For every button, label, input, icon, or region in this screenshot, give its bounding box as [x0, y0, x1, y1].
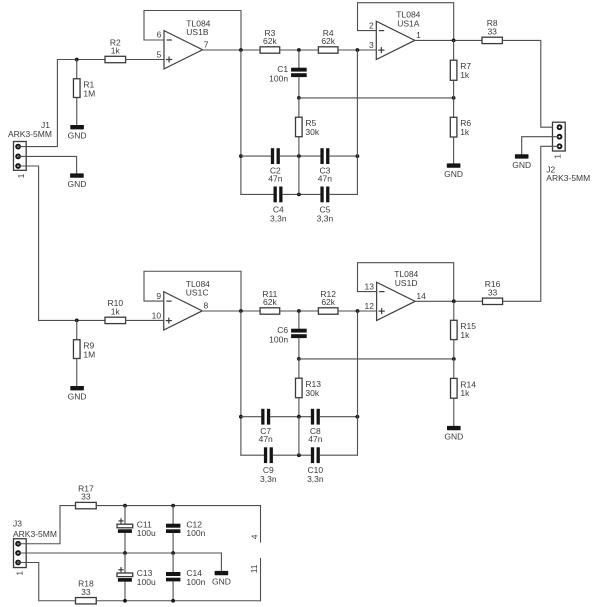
svg-text:ARK3-5MM: ARK3-5MM	[13, 529, 57, 539]
capacitor C7	[259, 409, 273, 444]
resistor R16	[483, 279, 503, 304]
junction centre C7/C8 row	[297, 415, 301, 419]
ground (R1)	[68, 125, 87, 141]
svg-text:3,3n: 3,3n	[307, 474, 324, 484]
wire J2 pin2 to ground	[522, 137, 558, 155]
svg-text:ARK3-5MM: ARK3-5MM	[546, 173, 590, 183]
connector J3	[14, 539, 27, 568]
wire node F to R13	[298, 359, 300, 378]
resistor R3	[260, 28, 280, 53]
junction US1B output node	[239, 48, 243, 52]
resistor R8	[482, 18, 502, 43]
capacitor C4	[270, 187, 287, 224]
resistor R2	[105, 37, 126, 62]
capacitor C10	[307, 447, 324, 484]
wire J1 pin3 to channel-2 input	[18, 166, 105, 320]
wire R3 to node A	[280, 49, 319, 51]
svg-text:62k: 62k	[321, 36, 335, 46]
junction divider node ch2	[452, 357, 456, 361]
junction node A	[297, 48, 301, 52]
wire J1 pin2 to ground	[18, 156, 77, 173]
capacitor C12	[166, 524, 180, 533]
svg-text:62k: 62k	[263, 297, 277, 307]
resistor R11	[260, 289, 280, 314]
svg-text:J3: J3	[13, 519, 22, 529]
wire C7 to C8	[271, 416, 311, 418]
svg-text:C6: C6	[277, 325, 288, 335]
svg-text:1k: 1k	[460, 330, 470, 340]
svg-text:13: 13	[365, 281, 375, 291]
op-amp US1A	[376, 21, 415, 59]
svg-text:GND: GND	[444, 432, 463, 442]
svg-text:1: 1	[553, 154, 563, 159]
wire GND rail down to C13	[124, 553, 126, 573]
wire node C to R5	[298, 98, 300, 117]
svg-text:1k: 1k	[460, 70, 470, 80]
capacitor C11	[117, 518, 133, 533]
wire C11 to GND rail	[124, 533, 126, 553]
wire GND rail to ground symbol	[220, 553, 222, 571]
svg-text:US1D: US1D	[395, 278, 418, 288]
svg-text:2: 2	[369, 20, 374, 30]
svg-text:GND: GND	[68, 131, 87, 141]
capacitor C8	[308, 409, 322, 444]
resistor R13	[296, 378, 322, 398]
svg-text:1M: 1M	[83, 88, 95, 98]
wire J2 pin3 to R16	[503, 146, 558, 301]
capacitor C6	[269, 325, 307, 345]
svg-text:3,3n: 3,3n	[270, 213, 287, 223]
wire node F to R15/R14 divider	[299, 358, 454, 360]
junction GND rail at C13	[123, 551, 127, 555]
junction right C8 row	[356, 415, 360, 419]
wire R13 to C7/C8 row	[298, 398, 300, 417]
svg-text:33: 33	[81, 587, 91, 597]
resistor R6	[450, 117, 471, 137]
junction US1A output node	[452, 39, 456, 43]
wire J3 pin1 to R17	[18, 506, 75, 544]
svg-text:100u: 100u	[137, 577, 156, 587]
svg-text:9: 9	[156, 291, 161, 301]
wire node A down to C1	[298, 50, 300, 68]
svg-text:47n: 47n	[259, 434, 273, 444]
svg-text:100u: 100u	[137, 528, 156, 538]
wire rail node E down	[357, 311, 359, 455]
junction input node ch2	[75, 319, 79, 323]
wire rail US1B output down	[240, 50, 242, 194]
svg-text:3,3n: 3,3n	[260, 474, 277, 484]
capacitor C1	[269, 64, 307, 84]
junction left C2 row	[239, 154, 243, 158]
svg-text:47n: 47n	[318, 173, 332, 183]
wire R1 to ground	[76, 98, 78, 126]
svg-text:US1B: US1B	[186, 27, 209, 37]
wire divider node to R6	[453, 98, 455, 117]
svg-text:C1: C1	[277, 64, 288, 74]
svg-text:47n: 47n	[308, 434, 322, 444]
wire C2 row down to C4 row	[298, 156, 300, 194]
wire US1A output	[415, 39, 482, 41]
junction centre C9/C10 row	[297, 453, 301, 457]
wire C14 to V- rail	[172, 581, 174, 600]
op-amp US1B	[164, 31, 203, 69]
wire V+ to pin 4 stub	[260, 506, 262, 542]
wire C9/C10 row left	[241, 454, 264, 456]
resistor R10	[105, 298, 126, 323]
svg-text:GND: GND	[512, 160, 531, 170]
wire C2/C3 row left	[241, 155, 271, 157]
svg-text:7: 7	[204, 39, 209, 49]
wire R14 to ground	[453, 398, 455, 426]
svg-text:ARK3-5MM: ARK3-5MM	[8, 129, 52, 139]
wire C10 row right	[320, 454, 357, 456]
svg-text:62k: 62k	[263, 36, 277, 46]
svg-text:30k: 30k	[305, 388, 319, 398]
ground (J1)	[67, 173, 86, 189]
svg-text:GND: GND	[67, 179, 86, 189]
svg-text:3: 3	[369, 40, 374, 50]
wire US1D output	[415, 300, 482, 302]
wire R15 to divider node	[453, 340, 455, 359]
wire GND rail down to C14	[172, 553, 174, 572]
wire US1B feedback loop	[144, 11, 241, 51]
junction US1D output node	[452, 299, 456, 303]
wire R7 to divider node	[453, 80, 455, 98]
svg-text:100n: 100n	[269, 74, 288, 84]
svg-text:GND: GND	[212, 577, 231, 587]
svg-text:US1A: US1A	[397, 18, 420, 28]
wire C12 to GND rail	[172, 533, 174, 553]
svg-text:14: 14	[416, 291, 426, 301]
capacitor C9	[260, 447, 277, 484]
junction centre C2/C3 row	[297, 154, 301, 158]
svg-text:11: 11	[249, 564, 259, 573]
wire GND rail	[18, 552, 221, 554]
svg-text:1M: 1M	[83, 349, 95, 359]
resistor R5	[296, 117, 320, 137]
svg-text:4: 4	[250, 534, 260, 539]
svg-text:5: 5	[157, 49, 162, 59]
ground (power)	[212, 571, 231, 587]
svg-text:1: 1	[14, 571, 24, 576]
svg-text:1: 1	[16, 173, 26, 178]
svg-text:100n: 100n	[186, 528, 205, 538]
resistor R14	[451, 378, 477, 398]
wire input node to R9	[76, 320, 78, 339]
wire US1A feedback loop	[358, 3, 454, 41]
wire R10 to US1C pin10	[126, 319, 164, 321]
svg-text:1k: 1k	[111, 46, 121, 56]
wire R4 to US1A pin3	[338, 49, 376, 51]
wire US1C output	[202, 310, 260, 312]
resistor R12	[318, 289, 338, 314]
connector J1	[14, 142, 27, 171]
ground (J2)	[512, 154, 531, 170]
svg-text:1k: 1k	[111, 306, 121, 316]
ground (R14)	[444, 426, 463, 442]
junction input node ch1	[75, 58, 79, 62]
wire node D down to C6	[298, 311, 300, 329]
wire output node to R15	[453, 301, 455, 320]
capacitor C3	[318, 148, 332, 183]
resistor R15	[451, 320, 477, 340]
junction V+ at C12	[171, 504, 175, 508]
svg-text:US1C: US1C	[186, 288, 209, 298]
wire C7/C8 row left	[241, 416, 261, 418]
svg-text:GND: GND	[68, 392, 87, 402]
svg-text:33: 33	[81, 492, 91, 502]
wire C4/C5 row left	[241, 193, 274, 195]
wire J3 pin3 to R18	[18, 563, 75, 601]
svg-text:3,3n: 3,3n	[317, 213, 334, 223]
wire J1 pin1 to input node	[18, 60, 105, 147]
svg-text:30k: 30k	[305, 127, 319, 137]
junction GND rail at C14	[171, 551, 175, 555]
svg-text:6: 6	[157, 30, 162, 40]
wire rail node B down	[356, 50, 358, 194]
wire C5 row right	[329, 193, 357, 195]
connector J2	[553, 122, 566, 151]
capacitor C14	[166, 572, 180, 581]
svg-text:GND: GND	[444, 169, 463, 179]
wire V+ down to C11	[124, 506, 126, 525]
ground (R9)	[68, 386, 87, 402]
wire US1C feedback loop	[144, 271, 241, 311]
wire US1B output	[203, 49, 261, 51]
svg-text:10: 10	[152, 310, 162, 320]
wire C7 row down to C9 row	[298, 417, 300, 456]
wire C13 to V- rail	[124, 582, 126, 601]
svg-text:47n: 47n	[268, 173, 282, 183]
svg-text:62k: 62k	[321, 297, 335, 307]
junction right C3 row	[356, 154, 360, 158]
wire R9 to ground	[76, 359, 78, 387]
junction V- at C14	[171, 599, 175, 603]
wire R11 to node D	[280, 310, 319, 312]
resistor R18	[76, 579, 97, 604]
resistor R4	[318, 28, 338, 53]
svg-text:33: 33	[487, 26, 497, 36]
svg-text:1: 1	[416, 30, 421, 40]
wire R5 to C2/C3 row	[298, 137, 300, 156]
wire node C to R7/R6 divider	[299, 97, 454, 99]
junction node D	[297, 309, 301, 313]
svg-text:1k: 1k	[460, 388, 470, 398]
wire C3 row right	[329, 155, 357, 157]
wire V+ down to C12	[172, 506, 174, 524]
wire rail US1C output down	[240, 311, 242, 455]
wire C4 to C5	[283, 193, 321, 195]
svg-text:33: 33	[488, 287, 498, 297]
capacitor C5	[317, 187, 334, 224]
svg-text:100n: 100n	[269, 335, 288, 345]
wire R12 to US1D pin12	[338, 310, 377, 312]
junction centre C4/C5 row	[297, 193, 301, 197]
junction node F	[297, 357, 301, 361]
wire V+ rail	[96, 505, 260, 507]
junction V+ at C11	[123, 504, 127, 508]
wire C6 to node F	[298, 338, 300, 359]
capacitor C13	[117, 567, 133, 582]
junction left C7 row	[239, 415, 243, 419]
op-amp US1C	[164, 292, 203, 330]
wire V- rail	[96, 600, 260, 602]
resistor R1	[73, 79, 95, 99]
wire C8 row right	[320, 416, 357, 418]
op-amp US1D	[377, 282, 416, 320]
wire R6 to ground	[453, 137, 455, 163]
junction node B at US1A pin3	[356, 48, 360, 52]
svg-text:1k: 1k	[460, 127, 470, 137]
junction node E at US1D pin12	[356, 309, 360, 313]
svg-text:12: 12	[365, 301, 375, 311]
junction V- at C13	[123, 599, 127, 603]
resistor R17	[76, 483, 97, 508]
wire C2 to C3	[280, 155, 321, 157]
resistor R9	[73, 340, 95, 360]
wire divider node to R14	[453, 359, 455, 379]
wire R8 to J2 pin1	[502, 40, 557, 127]
wire C1 to node C	[298, 77, 300, 98]
svg-text:100n: 100n	[186, 577, 205, 587]
wire C9 to C10	[273, 454, 311, 456]
ground (R6)	[444, 163, 463, 179]
wire R2 to US1B pin5	[126, 59, 164, 61]
wire US1D feedback loop	[358, 263, 454, 302]
wire output node to R7	[453, 40, 455, 60]
svg-text:8: 8	[204, 300, 209, 310]
resistor R7	[450, 60, 471, 80]
junction US1C output node	[239, 309, 243, 313]
junction node C	[297, 96, 301, 100]
wire input node to R1	[76, 60, 78, 79]
junction divider node ch1	[452, 96, 456, 100]
capacitor C2	[268, 148, 282, 183]
wire V- to pin 11 stub	[260, 558, 262, 600]
